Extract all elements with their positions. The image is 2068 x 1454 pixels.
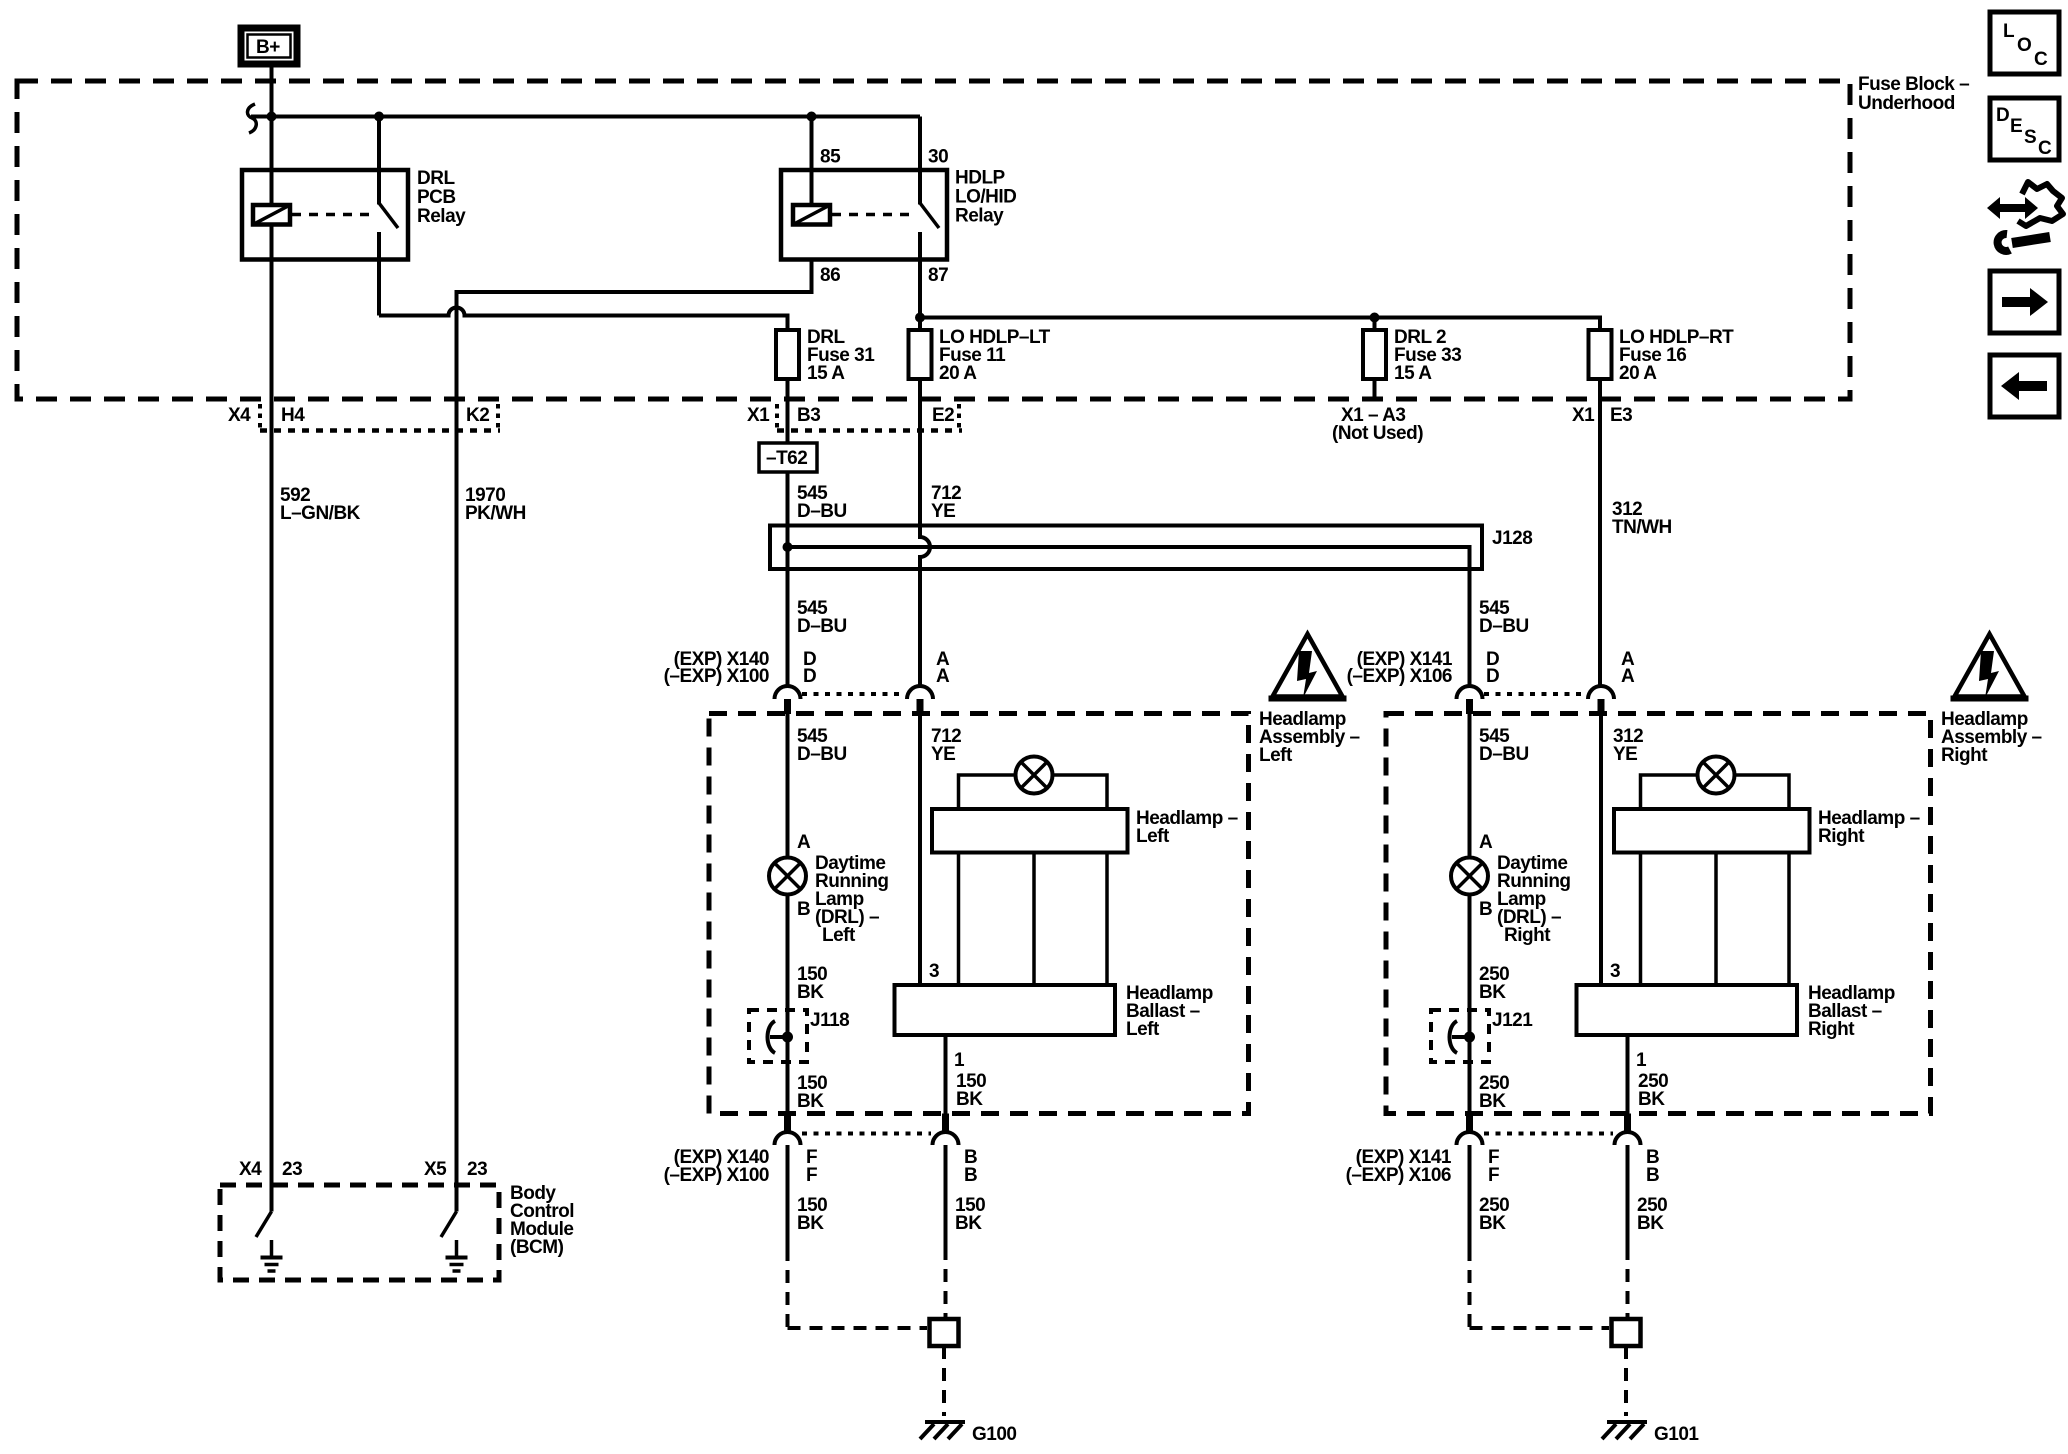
svg-text:X1: X1 [747, 405, 770, 426]
pin B/B right [1646, 1147, 1659, 1186]
connector arcs X140/X100 bottom (left) [775, 1114, 959, 1146]
svg-text:E2: E2 [932, 405, 954, 426]
wire label 545 D-BU (below J128 right) [1479, 598, 1529, 637]
wire: 1970 PK/WH K2 to BCM X5 [455, 399, 459, 1212]
headlamp right: housing [1614, 775, 1810, 985]
svg-text:X4: X4 [228, 405, 251, 426]
wire label 545 D-BU inside right assembly [1479, 726, 1529, 765]
svg-text:YE: YE [931, 501, 955, 522]
label Headlamp Ballast - Right [1808, 983, 1895, 1040]
hazard triangle right [1951, 634, 2029, 699]
wire: 545 D-BU from J128 to left headlamp connector [786, 547, 790, 686]
wire: 712 YE through J128 (hop over bus) [920, 526, 930, 570]
svg-text:YE: YE [1613, 744, 1637, 765]
battery B+ terminal [241, 28, 297, 64]
wire: stub to DRL 2 fuse [1373, 318, 1377, 331]
svg-text:O: O [2017, 35, 2031, 56]
label Daytime Running Lamp (DRL) - Left [815, 853, 889, 946]
headlamp right bulb [1698, 757, 1735, 794]
lamp: Daytime Running Lamp (DRL) - Left [769, 858, 806, 895]
connector X1-A3 not used [1332, 405, 1423, 444]
BCM label [510, 1183, 574, 1258]
wire: DRL left lamp return 150 BK [786, 895, 790, 1114]
wire label 545 D-BU inside left assembly [797, 726, 847, 765]
svg-text:(–EXP) X100: (–EXP) X100 [664, 666, 769, 687]
wire: 545 D-BU to DRL lamp right [1468, 714, 1472, 858]
svg-text:23: 23 [282, 1159, 302, 1180]
fuse F33: DRL 2 Fuse 33 15A [1363, 330, 1386, 379]
pin F/F right [1488, 1147, 1499, 1186]
svg-text:20 A: 20 A [939, 363, 977, 384]
wire: left F leg to ground splice [788, 1145, 928, 1328]
svg-text:BK: BK [955, 1213, 982, 1234]
headlamp assembly right dashed box [1386, 714, 1931, 1114]
fuse block label [1858, 74, 1969, 114]
svg-text:BK: BK [1479, 1213, 1506, 1234]
connector labels (EXP) X140 / (-EXP) X100 bottom [664, 1147, 769, 1186]
wire: 545 D-BU from J128 right end to right headlamp connector [1468, 569, 1472, 686]
wire: DRL relay switch to Fuse 31 (hops over K2 wire) [379, 308, 788, 331]
wire: splice to G101 ground [1624, 1346, 1628, 1416]
svg-text:A: A [936, 666, 950, 687]
svg-text:Right: Right [1504, 925, 1551, 946]
svg-text:Left: Left [822, 925, 856, 946]
connector labels (EXP) X141 / (-EXP) X106 bottom [1346, 1147, 1452, 1186]
ground splice block G100 [930, 1319, 959, 1346]
wire label 312 TN/WH [1612, 499, 1672, 538]
svg-text:F: F [1488, 1165, 1499, 1186]
svg-text:K2: K2 [466, 405, 489, 426]
relay K: DRL PCB Relay [242, 117, 408, 316]
svg-text:D–BU: D–BU [1479, 616, 1529, 637]
svg-text:A: A [797, 832, 811, 853]
connector labels (EXP) X140 / (-EXP) X100 top [664, 649, 769, 687]
svg-text:A: A [1621, 666, 1635, 687]
svg-text:A: A [1479, 832, 1493, 853]
component -T62 [759, 443, 817, 472]
nav icon vehicle/wrench [1987, 182, 2063, 251]
svg-text:D–BU: D–BU [797, 616, 847, 637]
svg-text:D: D [803, 666, 816, 687]
connector labels (EXP) X141 / (-EXP) X106 top [1347, 649, 1453, 687]
svg-text:D–BU: D–BU [797, 744, 847, 765]
wire label 150 BK above J118 [797, 964, 827, 1003]
svg-text:PK/WH: PK/WH [465, 503, 526, 524]
svg-text:DRL: DRL [417, 168, 455, 189]
wire: right F leg to ground splice [1470, 1145, 1610, 1328]
node: DRL 2 fuse tee [1370, 313, 1380, 323]
svg-text:HDLP: HDLP [955, 168, 1006, 189]
svg-text:(BCM): (BCM) [510, 1237, 564, 1258]
connector X1/E3 [1572, 405, 1632, 426]
connector arcs X140/X100 top (left headlamp) [775, 686, 934, 714]
svg-text:F: F [806, 1165, 817, 1186]
svg-text:3: 3 [1610, 961, 1620, 982]
svg-text:B3: B3 [797, 405, 820, 426]
wire label 545 D-BU (above J128) [797, 483, 847, 522]
wire label 150 BK (left ground leg B) [955, 1195, 985, 1234]
svg-text:BK: BK [1479, 1091, 1506, 1112]
connector X1/B3/E2 band [747, 404, 962, 431]
body control module dashed box [220, 1185, 499, 1280]
svg-text:E: E [2010, 116, 2022, 137]
svg-text:BK: BK [1479, 982, 1506, 1003]
svg-text:1: 1 [954, 1050, 965, 1071]
svg-text:TN/WH: TN/WH [1612, 517, 1672, 538]
svg-text:X1: X1 [1572, 405, 1595, 426]
svg-text:BK: BK [797, 1213, 824, 1234]
svg-text:(–EXP) X100: (–EXP) X100 [664, 1165, 769, 1186]
svg-text:(–EXP) X106: (–EXP) X106 [1347, 666, 1452, 687]
label Headlamp - Right [1818, 808, 1920, 847]
svg-text:S: S [2024, 127, 2036, 148]
svg-text:Right: Right [1818, 826, 1865, 847]
wire label 712 YE (above J128) [931, 483, 961, 522]
wire: fuse 31 output through B3 [786, 379, 790, 443]
svg-text:X5: X5 [424, 1159, 447, 1180]
svg-text:15 A: 15 A [807, 363, 845, 384]
connector X5 pin 23 [424, 1159, 487, 1180]
wire label 150 BK ballast return [956, 1071, 986, 1110]
pin A/A left [936, 649, 950, 687]
headlamp ballast left [895, 985, 1116, 1035]
wire: T62 to J128 [786, 472, 790, 547]
connector arcs X141/X106 bottom (right) [1457, 1114, 1641, 1146]
svg-text:87: 87 [928, 265, 948, 286]
wire: HDLP relay pin 86 to K2 [457, 260, 812, 400]
svg-text:G100: G100 [972, 1424, 1016, 1445]
wire: pin 87 branch bus to right fuses [920, 318, 1600, 331]
wire: left B leg to ground splice [944, 1145, 948, 1317]
svg-text:BK: BK [956, 1089, 983, 1110]
label Daytime Running Lamp (DRL) - Right [1497, 853, 1571, 946]
svg-text:1: 1 [1636, 1050, 1647, 1071]
svg-text:PCB: PCB [417, 187, 456, 208]
relay K: HDLP LO/HID Relay [781, 117, 947, 331]
svg-text:Underhood: Underhood [1858, 93, 1955, 114]
svg-text:BK: BK [797, 982, 824, 1003]
svg-text:G101: G101 [1654, 1424, 1699, 1445]
svg-text:LO/HID: LO/HID [955, 187, 1016, 208]
svg-text:86: 86 [820, 265, 840, 286]
svg-text:Relay: Relay [955, 206, 1004, 227]
svg-text:Left: Left [1136, 826, 1170, 847]
wire: 712 YE into ballast pin 3 [918, 714, 922, 985]
label Headlamp - Left [1136, 808, 1238, 847]
ground G100 [920, 1422, 1016, 1445]
connector X4 pin 23 [239, 1159, 302, 1180]
svg-text:B+: B+ [256, 37, 280, 58]
pin B/B left [964, 1147, 977, 1186]
wire: ballast right pin 1 250 BK [1626, 1035, 1630, 1114]
svg-text:BK: BK [797, 1091, 824, 1112]
nav icon next arrow [1990, 271, 2059, 333]
wire label 712 YE inside left assembly [931, 726, 961, 765]
wire: 545 D-BU to DRL lamp left [786, 714, 790, 858]
svg-text:30: 30 [928, 147, 948, 168]
svg-text:(–EXP) X106: (–EXP) X106 [1346, 1165, 1451, 1186]
wire: fuse 33 output to X1-A3 (not used) [1373, 379, 1377, 400]
fuse block - underhood dashed boundary [17, 81, 1850, 399]
svg-text:BK: BK [1638, 1089, 1665, 1110]
svg-text:X4: X4 [239, 1159, 262, 1180]
wire: splice to G100 ground [942, 1346, 946, 1416]
svg-text:J118: J118 [810, 1010, 849, 1031]
svg-text:15 A: 15 A [1394, 363, 1432, 384]
fuse F11: LO HDLP-LT Fuse 11 20A [909, 330, 932, 379]
svg-text:B: B [797, 899, 810, 920]
svg-text:H4: H4 [281, 405, 305, 426]
headlamp left: housing [932, 775, 1128, 985]
svg-text:3: 3 [929, 961, 939, 982]
svg-text:20 A: 20 A [1619, 363, 1657, 384]
wire label 1970 PK/WH [465, 485, 526, 524]
svg-text:BK: BK [1637, 1213, 1664, 1234]
headlamp ballast right [1577, 985, 1798, 1035]
headlamp assembly left label [1259, 709, 1360, 766]
wire: 312 YE into right ballast pin 3 [1599, 714, 1603, 985]
fuse F16: LO HDLP-RT Fuse 16 20A [1589, 330, 1612, 379]
svg-text:YE: YE [931, 744, 955, 765]
nav icon back arrow [1990, 355, 2059, 417]
node: DRL relay switch tee [374, 112, 384, 122]
pin A/A right [1621, 649, 1635, 687]
svg-text:–T62: –T62 [766, 448, 807, 469]
splice pack J128 [770, 526, 1482, 570]
svg-text:B: B [1646, 1165, 1659, 1186]
wire label 312 YE inside right assembly [1613, 726, 1643, 765]
wire: top bus from B+ to relays [247, 104, 920, 133]
hazard triangle left [1269, 634, 1347, 699]
svg-text:E3: E3 [1610, 405, 1632, 426]
headlamp assembly right label [1941, 709, 2042, 766]
svg-text:85: 85 [820, 147, 841, 168]
label Headlamp Ballast - Left [1126, 983, 1213, 1040]
svg-text:Fuse Block –: Fuse Block – [1858, 74, 1969, 95]
connector arcs X141/X106 top (right headlamp) [1457, 686, 1615, 714]
svg-text:L: L [2003, 21, 2015, 42]
nav icon LOC [1990, 12, 2059, 74]
wire label 250 BK (right ground leg F) [1479, 1195, 1509, 1234]
svg-text:D–BU: D–BU [797, 501, 847, 522]
wire: DRL right lamp return 250 BK [1468, 895, 1472, 1114]
wire: fuse 11 output through E2 [918, 379, 922, 537]
wire label 250 BK (right ground leg B) [1637, 1195, 1667, 1234]
svg-text:C: C [2038, 138, 2052, 159]
wire label 592 L-GN/BK [280, 485, 361, 524]
relay label: HDLP LO/HID Relay [955, 168, 1016, 227]
ground splice block G101 [1612, 1319, 1641, 1346]
svg-text:(Not Used): (Not Used) [1332, 423, 1423, 444]
wire label 250 BK below J121 [1479, 1073, 1509, 1112]
svg-text:B: B [1479, 899, 1492, 920]
svg-text:L–GN/BK: L–GN/BK [280, 503, 361, 524]
ground G101 [1602, 1422, 1699, 1445]
nav icon DESC [1990, 98, 2059, 160]
relay label: DRL PCB Relay [417, 168, 466, 227]
splice J121 [1431, 1010, 1533, 1062]
svg-text:J121: J121 [1492, 1010, 1533, 1031]
pin D/D right [1486, 649, 1499, 687]
node: pin 87 branch tee [915, 313, 925, 323]
wire: B+ feed vertical (592 circuit) [270, 68, 274, 1212]
wire label 250 BK above J121 [1479, 964, 1509, 1003]
svg-text:D: D [1996, 105, 2009, 126]
pin D/D left [803, 649, 816, 687]
svg-text:Left: Left [1126, 1019, 1160, 1040]
svg-text:D–BU: D–BU [1479, 744, 1529, 765]
pin F/F left [806, 1147, 817, 1186]
splice J118 [749, 1010, 849, 1062]
BCM switch to ground (X4 23) [256, 1212, 283, 1272]
wire: fuse 16 output 312 TN/WH through E3 [1598, 379, 1602, 686]
svg-text:B: B [964, 1165, 977, 1186]
lamp: Daytime Running Lamp (DRL) - Right [1451, 858, 1488, 895]
wire label 150 BK (left ground leg F) [797, 1195, 827, 1234]
svg-text:Right: Right [1941, 745, 1988, 766]
wire: right B leg to ground splice [1626, 1145, 1630, 1317]
svg-text:C: C [2034, 49, 2048, 70]
node: HDLP relay coil tee [807, 112, 817, 122]
headlamp left bulb [1016, 757, 1053, 794]
svg-text:23: 23 [467, 1159, 487, 1180]
connector X4/H4/K2 band [228, 404, 500, 431]
svg-text:D: D [1486, 666, 1499, 687]
wire label 545 D-BU (below J128 left) [797, 598, 847, 637]
node: B+ junction [267, 112, 277, 122]
svg-text:Right: Right [1808, 1019, 1855, 1040]
svg-text:Relay: Relay [417, 206, 466, 227]
BCM switch to ground (X5 23) [441, 1212, 468, 1272]
wire label 150 BK below J118 [797, 1073, 827, 1112]
svg-text:J128: J128 [1492, 528, 1532, 549]
wire label 250 BK right ballast return [1638, 1071, 1668, 1110]
svg-text:Left: Left [1259, 745, 1293, 766]
headlamp assembly left dashed box [709, 714, 1249, 1114]
fuse F31: DRL Fuse 31 15A [776, 330, 799, 379]
wire: ballast left pin 1 150 BK [944, 1035, 948, 1114]
